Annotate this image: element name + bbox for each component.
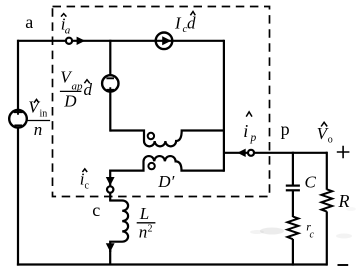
transformer T1 bottom winding — [110, 156, 224, 171]
voltage source V_in/n minus mark — [14, 124, 22, 126]
arrow at inductor bottom — [106, 243, 115, 252]
svg-text:D: D — [63, 92, 77, 111]
voltage source Vap/D*d circle — [102, 75, 118, 91]
resistor r_c zigzag — [287, 217, 298, 240]
voltage source Vap/D*d minus mark — [106, 77, 114, 79]
wire i_c branch down from bottom winding — [109, 170, 111, 187]
svg-text:c: c — [310, 230, 315, 241]
svg-text:a: a — [65, 25, 71, 37]
svg-text:D′: D′ — [157, 172, 174, 191]
wire R branch upper — [326, 152, 328, 190]
arrow for current i_a — [77, 37, 86, 45]
wire branch to Vap/D source — [109, 40, 111, 132]
svg-text:in: in — [40, 108, 48, 119]
node a terminal circle — [66, 38, 72, 44]
faint watermark smudge right margin — [336, 234, 352, 239]
svg-text:L: L — [139, 204, 149, 223]
current source U1 I_c*d circle — [156, 33, 173, 50]
wire i_p horizontal — [224, 152, 327, 154]
faint watermark smudge left of r_c — [260, 228, 284, 235]
svg-text:c: c — [92, 200, 100, 220]
node c terminal circle — [107, 186, 113, 192]
wire right vertical of transformer cell — [223, 40, 225, 172]
current source U1 arrow — [162, 36, 171, 45]
svg-text:o: o — [328, 134, 333, 145]
wire top rail — [18, 40, 224, 42]
plus sign of output polarity — [337, 146, 350, 159]
svg-text:i: i — [243, 121, 248, 141]
wire left vertical lower — [17, 128, 19, 266]
inductor L/n^2 coil — [109, 201, 128, 253]
voltage source Vap/D*d plus mark — [107, 87, 114, 92]
svg-text:C: C — [305, 173, 317, 192]
svg-text:2: 2 — [148, 224, 153, 235]
wire node c to inductor — [109, 193, 111, 201]
dashed boundary box of averaged switch model — [53, 7, 270, 197]
wire left vertical upper — [17, 40, 19, 110]
svg-text:n: n — [139, 223, 148, 242]
svg-text:I: I — [174, 14, 182, 33]
wire R to bottom rail — [326, 211, 328, 265]
arrow for current i_c — [106, 177, 115, 186]
wire capacitor to r_c — [292, 191, 294, 217]
wire r_c to bottom rail — [292, 239, 294, 266]
transformer T1 bottom winding polarity dot — [148, 163, 154, 169]
wire capacitor branch upper — [292, 152, 294, 185]
arrow for current i_p — [237, 149, 245, 157]
svg-text:p: p — [281, 119, 290, 139]
svg-text:c: c — [85, 181, 90, 192]
node p terminal circle — [248, 150, 254, 156]
svg-text:p: p — [250, 132, 257, 144]
svg-text:d: d — [187, 14, 196, 33]
transformer T1 top winding — [110, 131, 224, 147]
capacitor C top plate — [286, 185, 300, 187]
voltage source V_in/n circle — [9, 110, 27, 128]
resistor R zigzag — [321, 189, 332, 211]
capacitor C bottom plate — [286, 189, 300, 191]
svg-text:n: n — [34, 120, 43, 139]
transformer T1 top winding polarity dot — [148, 133, 154, 139]
voltage source V_in/n plus mark — [14, 110, 23, 115]
wire bottom rail — [17, 263, 327, 265]
minus sign of output polarity — [338, 264, 349, 266]
svg-text:a: a — [25, 12, 33, 32]
wire inductor to bottom rail — [109, 249, 111, 265]
